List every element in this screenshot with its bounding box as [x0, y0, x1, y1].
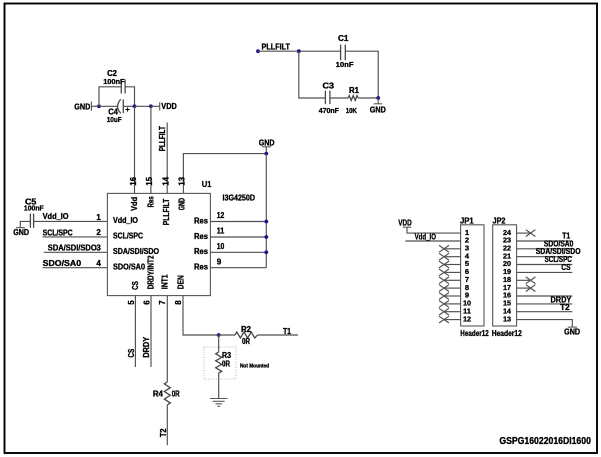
wire (GND vertical bus) — [265, 154, 267, 268]
capacitor C4 (polarized) — [118, 99, 130, 113]
ground GND (right of R1) — [370, 98, 386, 115]
svg-text:PLLFILT: PLLFILT — [162, 199, 171, 226]
resistor R3 — [216, 352, 222, 373]
wire (JP1 pin7 no-connect stub) — [445, 279, 460, 281]
no-connect X (JP1 pin8) — [439, 285, 449, 292]
wire (VDD to JP1 pin1) — [407, 227, 461, 233]
net PLLFILT (stub at pin14) — [158, 123, 167, 194]
svg-text:SDA/SDI/SDO: SDA/SDI/SDO — [113, 247, 159, 256]
svg-text:Res: Res — [147, 196, 156, 208]
wire (JP2 pin16) — [517, 295, 573, 297]
svg-text:13: 13 — [503, 314, 511, 323]
wire (JP1 pin12 no-connect stub) — [445, 319, 460, 321]
svg-text:SDO/SA0: SDO/SA0 — [43, 259, 82, 268]
op-amp U1 body (IC I3G4250D) — [107, 193, 210, 295]
node — [264, 250, 268, 254]
svg-text:16: 16 — [129, 176, 138, 185]
capacitor C3 — [325, 91, 330, 104]
svg-text:Res: Res — [194, 263, 209, 272]
svg-text:100nF: 100nF — [103, 77, 125, 86]
wire (pin4) — [43, 267, 108, 269]
wire — [123, 105, 134, 107]
ground (earth symbol below R3) — [210, 399, 228, 407]
svg-text:15: 15 — [145, 176, 154, 185]
not-mounted dotted box — [204, 347, 236, 379]
wire — [135, 105, 151, 107]
svg-text:GND: GND — [370, 106, 386, 115]
wire (JP1 pin9 no-connect stub) — [445, 295, 460, 297]
wire (JP2 pin22) — [517, 248, 573, 250]
node (R2/R3 junction) — [217, 333, 221, 337]
wire — [299, 51, 326, 98]
wire (JP2 pin13 to GND) — [517, 320, 573, 327]
wire (JP1 pin6 no-connect stub) — [445, 271, 460, 273]
ground GND (above U1 right) — [259, 138, 275, 153]
svg-text:5: 5 — [127, 300, 136, 305]
node (junction GND net) — [264, 152, 268, 156]
JP2 pin18 no-connect stub — [517, 277, 536, 284]
svg-text:0R: 0R — [242, 337, 250, 346]
svg-text:Header12: Header12 — [492, 329, 522, 338]
wire (pin10) — [210, 251, 266, 253]
svg-text:10K: 10K — [346, 106, 358, 115]
svg-text:PLLFILT: PLLFILT — [158, 126, 167, 151]
no-connect X (JP1 pin9) — [439, 293, 449, 300]
wire (JP1 pin10 no-connect stub) — [445, 303, 460, 305]
svg-text:R2: R2 — [241, 325, 252, 334]
svg-text:Vdd_IO: Vdd_IO — [415, 233, 436, 242]
svg-text:JP1: JP1 — [460, 216, 474, 225]
svg-text:DRDY/INT2: DRDY/INT2 — [147, 255, 156, 289]
node — [264, 220, 268, 224]
svg-text:14: 14 — [162, 176, 171, 185]
svg-text:Header12: Header12 — [460, 329, 489, 338]
svg-text:10uF: 10uF — [107, 115, 122, 124]
no-connect X (JP1 pin7) — [439, 277, 449, 284]
svg-text:INT1: INT1 — [161, 274, 170, 289]
svg-text:CS: CS — [127, 348, 136, 357]
svg-text:I3G4250D: I3G4250D — [223, 194, 256, 203]
capacitor C5 — [30, 214, 33, 228]
no-connect X (JP1 pin3) — [439, 245, 449, 252]
svg-text:SCL/SPC: SCL/SPC — [113, 232, 143, 241]
wire — [345, 51, 378, 98]
svg-text:9: 9 — [217, 257, 222, 266]
svg-text:10: 10 — [217, 242, 225, 251]
svg-text:100nF: 100nF — [24, 204, 44, 213]
svg-text:SCL/SPC: SCL/SPC — [43, 228, 73, 237]
svg-text:JP2: JP2 — [493, 216, 507, 225]
svg-text:GSPG16022016DI1600: GSPG16022016DI1600 — [499, 435, 591, 447]
svg-text:C1: C1 — [338, 34, 349, 43]
wire (pin16 drop) — [134, 106, 136, 193]
wire (pin1) — [34, 220, 108, 222]
wire (R3 to ground) — [218, 373, 220, 399]
JP2 pin17 no-connect stub — [517, 285, 536, 292]
svg-text:Res: Res — [194, 232, 209, 241]
wire (JP1 pin2) — [405, 240, 460, 242]
svg-text:Res: Res — [194, 247, 209, 256]
svg-text:T1: T1 — [283, 327, 291, 336]
wire (pin8 DEN) — [183, 296, 219, 335]
svg-text:3: 3 — [96, 244, 101, 253]
svg-text:Vdd_IO: Vdd_IO — [43, 212, 69, 221]
wire (pin7 to R4) — [166, 296, 168, 382]
wire (pin6 stub) — [150, 296, 152, 367]
connector JP2 body — [493, 225, 517, 326]
svg-text:VDD: VDD — [398, 218, 412, 227]
node — [376, 96, 380, 100]
no-connect X (JP1 pin5) — [439, 261, 449, 268]
svg-text:Vdd_IO: Vdd_IO — [113, 216, 138, 225]
node (junction Vdd pin16) — [133, 104, 137, 108]
wire (pin12) — [210, 221, 266, 223]
wire — [99, 105, 118, 107]
wire (JP2 pin20) — [517, 264, 573, 266]
ground GND (left of C4) — [74, 102, 91, 112]
ground GND (JP2 pin13) — [564, 327, 580, 336]
wire (pin11) — [210, 236, 266, 238]
wire (JP2 pin21) — [517, 256, 573, 258]
node — [297, 49, 301, 53]
svg-text:2: 2 — [96, 228, 101, 237]
svg-text:10nF: 10nF — [336, 60, 354, 69]
wire (junction to R3) — [218, 335, 220, 352]
wire — [151, 105, 160, 107]
wire (JP2 pin14) — [517, 311, 573, 313]
svg-text:470nF: 470nF — [319, 106, 340, 115]
wire (JP1 pin3 no-connect stub) — [445, 248, 460, 250]
power VDD — [160, 102, 177, 111]
wire (pin3) — [44, 251, 108, 253]
svg-text:VDD: VDD — [161, 102, 177, 111]
svg-text:12: 12 — [463, 314, 471, 323]
svg-text:U1: U1 — [202, 180, 212, 189]
svg-text:11: 11 — [217, 227, 225, 236]
no-connect X (JP1 pin11) — [439, 308, 449, 315]
svg-text:12: 12 — [217, 211, 225, 220]
svg-text:GND: GND — [564, 327, 580, 336]
svg-text:8: 8 — [174, 300, 183, 305]
svg-text:7: 7 — [158, 300, 167, 305]
svg-text:1: 1 — [96, 213, 101, 222]
wire (pin15 drop) — [150, 106, 152, 193]
wire (JP1 pin8 no-connect stub) — [445, 287, 460, 289]
svg-text:DEN: DEN — [176, 275, 185, 289]
svg-text:13: 13 — [178, 176, 187, 185]
power VDD (JP1 pin1) — [398, 218, 412, 227]
wire — [20, 221, 30, 227]
svg-text:C3: C3 — [323, 81, 335, 90]
svg-text:Vdd: Vdd — [130, 197, 139, 211]
no-connect X (JP1 pin6) — [439, 269, 449, 276]
svg-text:T2: T2 — [159, 428, 168, 437]
wire (JP2 pin19) — [517, 271, 573, 273]
node (junction Res pin15) — [149, 104, 153, 108]
JP2 pin24 no-connect stub — [517, 230, 536, 237]
wire — [219, 334, 235, 336]
wire (pin5 stub) — [134, 296, 136, 367]
svg-text:GND: GND — [177, 198, 186, 210]
wire (JP2 pin23) — [517, 240, 573, 242]
wire — [91, 105, 99, 107]
svg-text:CS: CS — [131, 281, 140, 290]
wire (JP1 pin11 no-connect stub) — [445, 311, 460, 313]
wire (JP1 pin5 no-connect stub) — [445, 264, 460, 266]
no-connect X (JP1 pin10) — [439, 301, 449, 308]
wire — [358, 97, 378, 99]
no-connect X (JP1 pin4) — [439, 253, 449, 260]
node (PLLFILT left end) — [256, 49, 260, 53]
resistor R1 — [348, 96, 358, 101]
ground GND (below C5) — [13, 228, 29, 238]
wire (pin2) — [43, 236, 108, 238]
svg-text:Res: Res — [194, 216, 209, 225]
svg-text:6: 6 — [143, 300, 152, 305]
wire (JP2 pin15) — [517, 303, 573, 305]
svg-text:Not Mounted: Not Mounted — [240, 363, 269, 369]
capacitor C2 — [121, 80, 125, 94]
svg-text:PLLFILT: PLLFILT — [262, 42, 291, 51]
no-connect X (JP1 pin12) — [439, 316, 449, 323]
svg-text:DRDY: DRDY — [142, 336, 151, 358]
svg-text:R1: R1 — [349, 86, 360, 95]
svg-text:SDA/SDI/SDO: SDA/SDI/SDO — [48, 244, 97, 253]
svg-text:GND: GND — [13, 228, 29, 237]
svg-text:T2: T2 — [560, 303, 570, 312]
svg-text:SDO/SA0: SDO/SA0 — [113, 262, 145, 271]
svg-text:0R: 0R — [222, 360, 230, 369]
svg-text:GND: GND — [74, 102, 90, 111]
wire — [258, 50, 341, 52]
svg-text:R4: R4 — [153, 389, 164, 398]
svg-text:GND: GND — [259, 138, 275, 147]
wire — [330, 97, 348, 99]
wire (pin13 to GND) — [183, 154, 266, 194]
wire (pin9) — [210, 267, 266, 269]
wire (JP1 pin4 no-connect stub) — [445, 256, 460, 258]
node (junction at GND/C4/C2) — [97, 104, 101, 108]
wire — [125, 87, 134, 107]
wire (R2 to T1) — [258, 334, 299, 336]
svg-text:0R: 0R — [172, 389, 180, 398]
svg-text:4: 4 — [96, 259, 101, 268]
resistor R4 — [164, 382, 170, 405]
capacitor C1 — [341, 45, 346, 61]
connector JP1 body — [461, 225, 484, 326]
resistor R2 — [235, 332, 258, 338]
wire — [99, 87, 121, 107]
wire (R4 to T2) — [166, 405, 168, 445]
node — [264, 235, 268, 239]
svg-text:CS: CS — [561, 263, 571, 272]
